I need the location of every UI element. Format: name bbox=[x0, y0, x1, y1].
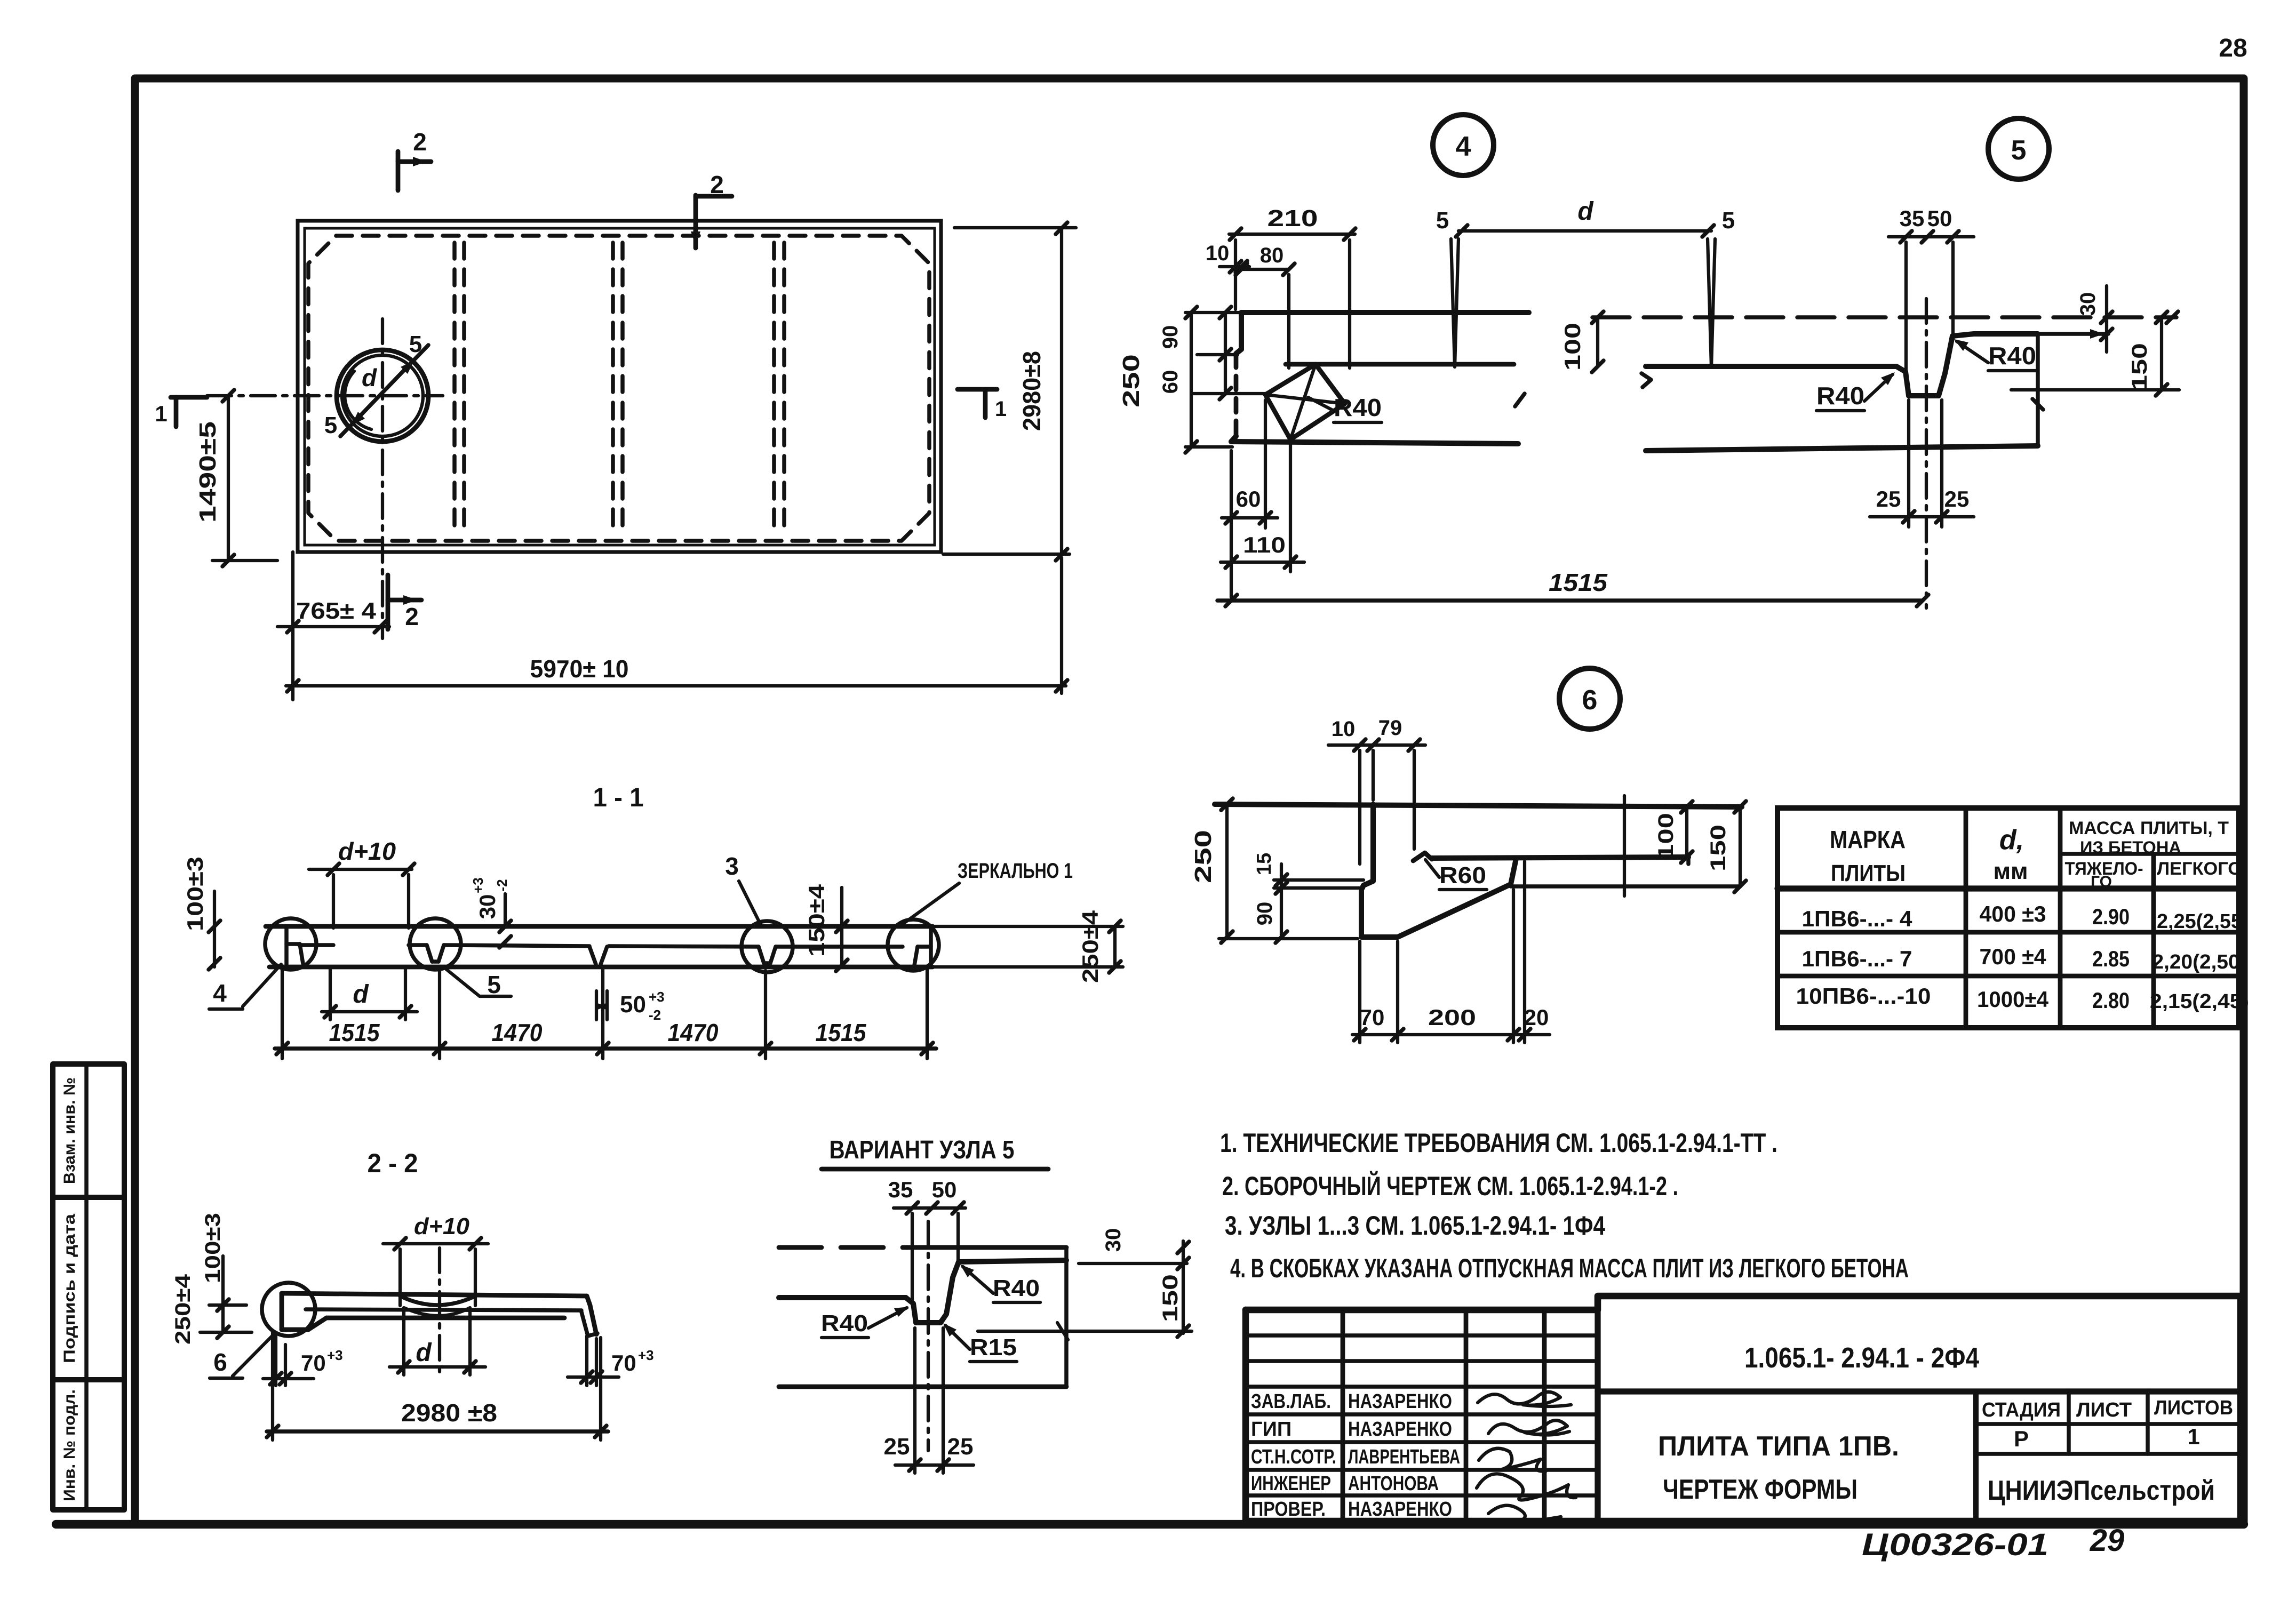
svg-text:+3: +3 bbox=[327, 1347, 343, 1363]
svg-text:20: 20 bbox=[1524, 1005, 1549, 1030]
svg-text:1470: 1470 bbox=[492, 1019, 543, 1046]
svg-text:+3: +3 bbox=[638, 1347, 654, 1363]
dimension 100±3 section 1-1 bbox=[182, 857, 220, 970]
dimension 250 detail 4 (left) bbox=[1118, 307, 1243, 453]
svg-text:R40: R40 bbox=[993, 1275, 1040, 1301]
plan hole diameter line d bbox=[340, 345, 428, 436]
title block row labels bbox=[1251, 1390, 1336, 1521]
svg-text:2: 2 bbox=[405, 603, 419, 630]
plan dashed inner outline with chamfered corners bbox=[308, 236, 929, 541]
dimension 80 detail 4 bbox=[1235, 244, 1295, 368]
plan dashed rib lines pair 3 bbox=[774, 243, 784, 534]
svg-text:2,15(2,45): 2,15(2,45) bbox=[2150, 990, 2249, 1013]
svg-text:5: 5 bbox=[1436, 207, 1449, 234]
svg-text:d: d bbox=[362, 364, 377, 391]
svg-text:90: 90 bbox=[1159, 325, 1182, 349]
svg-text:1515: 1515 bbox=[816, 1019, 867, 1046]
label R40 detail 4 bbox=[1308, 394, 1382, 422]
dimension 10 79 detail 6 top bbox=[1328, 716, 1425, 864]
svg-text:R60: R60 bbox=[1439, 862, 1486, 889]
svg-text:d,: d, bbox=[1999, 825, 2024, 855]
section mark 2 bottom bbox=[388, 575, 421, 629]
svg-text:15: 15 bbox=[1253, 853, 1275, 875]
dimension 50+3-2 section 1-1 bbox=[596, 989, 665, 1023]
label R40 variant right bbox=[960, 1265, 1040, 1302]
dimension 150±4 section 1-1 bbox=[804, 884, 848, 971]
label 4 with leader bbox=[209, 964, 281, 1009]
svg-text:250: 250 bbox=[1190, 830, 1216, 883]
svg-text:60: 60 bbox=[1236, 486, 1261, 511]
dimension 30 detail 5 bbox=[1974, 286, 2112, 352]
svg-text:R40: R40 bbox=[1816, 382, 1864, 410]
svg-text:1470: 1470 bbox=[668, 1019, 719, 1046]
svg-text:2.80: 2.80 bbox=[2092, 988, 2130, 1013]
dimension 1515 (details 4-5 bottom) bbox=[1217, 569, 1928, 606]
svg-text:28: 28 bbox=[2219, 34, 2247, 62]
detail 5 top reference dash line bbox=[1592, 311, 2178, 323]
svg-text:70: 70 bbox=[611, 1350, 636, 1375]
plan dashed rib lines pair 2 bbox=[613, 243, 623, 534]
svg-text:-2: -2 bbox=[649, 1007, 661, 1023]
section 2-2 hole axis bbox=[438, 1248, 441, 1379]
svg-text:d: d bbox=[1577, 197, 1594, 226]
label d in hole bbox=[362, 364, 377, 391]
title block organization bbox=[1988, 1475, 2215, 1506]
dimension 70+3 section 2-2 left bbox=[263, 1333, 343, 1386]
svg-text:НАЗАРЕНКО: НАЗАРЕНКО bbox=[1348, 1390, 1452, 1413]
dimension 2980±8 (plan right) bbox=[943, 222, 1076, 561]
svg-text:1: 1 bbox=[155, 401, 167, 426]
svg-text:R40: R40 bbox=[821, 1310, 868, 1337]
svg-text:30: 30 bbox=[475, 894, 500, 919]
dimension 250±4 section 1-1 bbox=[932, 910, 1123, 983]
table row 1 bbox=[1802, 901, 2243, 933]
svg-text:МАРКА: МАРКА bbox=[1830, 826, 1906, 853]
svg-text:110: 110 bbox=[1243, 532, 1286, 557]
svg-text:200: 200 bbox=[1428, 1005, 1476, 1030]
svg-text:1000±4: 1000±4 bbox=[1977, 987, 2049, 1012]
title block left grid bbox=[1246, 1310, 1598, 1521]
dimension 100±3 section 2-2 bbox=[200, 1213, 252, 1338]
detail 5 joint axis centerline bbox=[1925, 299, 1928, 608]
svg-text:5: 5 bbox=[324, 412, 337, 438]
svg-text:2. СБОРОЧНЫЙ ЧЕРТЕЖ СМ. 1.065.: 2. СБОРОЧНЫЙ ЧЕРТЕЖ СМ. 1.065.1-2.94.1-2… bbox=[1222, 1171, 1678, 1201]
svg-text:765± 4: 765± 4 bbox=[296, 598, 377, 624]
svg-text:4: 4 bbox=[1456, 131, 1471, 162]
svg-text:ПЛИТЫ: ПЛИТЫ bbox=[1831, 860, 1906, 886]
svg-text:1ПВ6-...- 4: 1ПВ6-...- 4 bbox=[1802, 906, 1913, 931]
svg-text:5: 5 bbox=[1722, 207, 1735, 234]
dimension 15 detail 6 bbox=[1253, 853, 1364, 894]
svg-text:100±3: 100±3 bbox=[201, 1213, 225, 1283]
dimension 100 detail 6 right bbox=[1654, 801, 1693, 863]
svg-text:ЛИСТОВ: ЛИСТОВ bbox=[2154, 1397, 2233, 1419]
svg-text:3. УЗЛЫ 1...3 СМ. 1.065.1-2.9: 3. УЗЛЫ 1...3 СМ. 1.065.1-2.94.1- 1Ф4 bbox=[1225, 1211, 1605, 1241]
svg-text:Ц00326-01: Ц00326-01 bbox=[1862, 1527, 2048, 1562]
svg-text:2,25(2,55: 2,25(2,55 bbox=[2157, 910, 2242, 933]
svg-text:2980±8: 2980±8 bbox=[1018, 351, 1046, 431]
svg-text:5970± 10: 5970± 10 bbox=[530, 655, 629, 683]
svg-text:1490±5: 1490±5 bbox=[195, 421, 221, 523]
svg-text:5: 5 bbox=[487, 971, 501, 998]
svg-text:50: 50 bbox=[932, 1177, 957, 1202]
svg-text:d+10: d+10 bbox=[414, 1213, 470, 1239]
svg-text:ИЗ БЕТОНА: ИЗ БЕТОНА bbox=[2080, 838, 2181, 857]
svg-text:+3: +3 bbox=[649, 989, 665, 1005]
svg-text:мм: мм bbox=[1993, 858, 2028, 884]
svg-text:R15: R15 bbox=[970, 1334, 1017, 1361]
dimension 250 detail 6 left bbox=[1190, 798, 1358, 943]
section mark 2 top-middle bbox=[691, 195, 732, 248]
dimension 35 50 variant bbox=[888, 1177, 966, 1301]
dimension d section 2-2 bbox=[389, 1312, 485, 1375]
svg-text:50: 50 bbox=[620, 991, 646, 1018]
svg-text:79: 79 bbox=[1378, 716, 1402, 740]
note 4 mass note bbox=[1230, 1253, 1909, 1283]
svg-text:d: d bbox=[416, 1339, 432, 1367]
title block document code bbox=[1744, 1342, 1979, 1374]
title block outer border bbox=[1246, 1296, 2241, 1521]
label 1 left bbox=[155, 401, 167, 426]
section 1-1 slab strip bbox=[266, 926, 932, 967]
dimension 150 detail 6 right bbox=[1707, 801, 1746, 892]
plan hole circle (double rim) bbox=[337, 350, 428, 442]
svg-text:4: 4 bbox=[213, 979, 227, 1007]
dimension 60 detail 4 bbox=[1159, 355, 1265, 399]
dimension d+10 section 2-2 bbox=[383, 1213, 488, 1306]
left margin stamp table bbox=[53, 1064, 124, 1510]
svg-text:1 - 1: 1 - 1 bbox=[593, 782, 644, 812]
svg-text:СТАДИЯ: СТАДИЯ bbox=[1982, 1399, 2061, 1421]
svg-text:ГО: ГО bbox=[2091, 873, 2112, 891]
svg-text:2,20(2,50): 2,20(2,50) bbox=[2153, 951, 2247, 973]
dimension 10 detail 4 bbox=[1206, 242, 1249, 273]
detail 6 break line bbox=[1623, 796, 1626, 896]
section 1-1 right end edge (mirror) bbox=[914, 926, 931, 967]
svg-text:35: 35 bbox=[1900, 206, 1925, 231]
variant node 5 outline bbox=[779, 1247, 1066, 1387]
detail 5 bubble bbox=[1988, 118, 2049, 179]
svg-text:250±4: 250±4 bbox=[1078, 910, 1103, 983]
svg-text:25: 25 bbox=[1876, 486, 1901, 511]
note 3 nodes bbox=[1225, 1211, 1605, 1241]
svg-text:МАССА ПЛИТЫ, Т: МАССА ПЛИТЫ, Т bbox=[2069, 818, 2229, 838]
svg-text:ГИП: ГИП bbox=[1251, 1418, 1292, 1441]
svg-text:R40: R40 bbox=[1334, 394, 1382, 421]
joint gap 5 leader right bbox=[1708, 207, 1735, 367]
svg-text:90: 90 bbox=[1253, 902, 1277, 926]
plan view outer rectangle (double line) bbox=[298, 221, 941, 552]
dimension 25 25 variant bbox=[884, 1328, 974, 1473]
title block middle divider bbox=[1598, 1388, 2241, 1394]
dimension 90 detail 6 bbox=[1253, 888, 1287, 943]
svg-text:СТ.Н.СОТР.: СТ.Н.СОТР. bbox=[1251, 1446, 1336, 1468]
svg-text:Взам. инв. №: Взам. инв. № bbox=[61, 1077, 78, 1184]
svg-text:ВАРИАНТ УЗЛА 5: ВАРИАНТ УЗЛА 5 bbox=[830, 1136, 1015, 1164]
svg-text:5: 5 bbox=[2011, 135, 2027, 166]
table header Марка плиты bbox=[1830, 826, 1906, 886]
mass table grid bbox=[1777, 808, 2239, 1028]
detail 5 section outline bbox=[1641, 334, 2043, 451]
note 2 assembly drawing bbox=[1222, 1171, 1678, 1201]
svg-text:150: 150 bbox=[1159, 1274, 1182, 1322]
svg-text:150: 150 bbox=[1707, 825, 1730, 871]
svg-text:10ПВ6-...-10: 10ПВ6-...-10 bbox=[1796, 983, 1931, 1009]
detail circle node 6 on section 2-2 bbox=[262, 1283, 315, 1336]
joint gap 5 leader left bbox=[1436, 207, 1458, 367]
svg-text:10: 10 bbox=[1206, 242, 1230, 265]
svg-text:ПРОВЕР.: ПРОВЕР. bbox=[1251, 1498, 1326, 1521]
dimension d section 1-1 bbox=[322, 969, 417, 1020]
dimension 1490±5 (plan left) bbox=[195, 390, 277, 566]
plan hole vertical centerline bbox=[381, 319, 384, 638]
svg-text:2.90: 2.90 bbox=[2092, 904, 2130, 929]
svg-text:ИНЖЕНЕР: ИНЖЕНЕР bbox=[1251, 1473, 1331, 1495]
section 2-2 hole arcs bbox=[400, 1296, 475, 1316]
svg-text:6: 6 bbox=[1582, 685, 1598, 716]
svg-text:4. В СКОБКАХ УКАЗАНА ОТПУСКНА: 4. В СКОБКАХ УКАЗАНА ОТПУСКНАЯ МАССА ПЛИ… bbox=[1230, 1253, 1909, 1283]
plan hole horizontal centerline bbox=[207, 394, 443, 397]
svg-text:1515: 1515 bbox=[1549, 569, 1608, 596]
label 3 with leader bbox=[725, 852, 760, 924]
svg-text:80: 80 bbox=[1260, 244, 1284, 267]
dimension 110 detail 4 bottom bbox=[1221, 443, 1304, 572]
label 5 at diameter top end bbox=[409, 331, 422, 357]
svg-text:30: 30 bbox=[1102, 1228, 1125, 1252]
dimension 250±4 section 2-2 bbox=[171, 1274, 195, 1345]
table header Масса плиты bbox=[2069, 818, 2229, 857]
detail 4 section outline bbox=[1231, 313, 1529, 444]
svg-text:29: 29 bbox=[2090, 1523, 2125, 1558]
section 1-1 rib notch in circle 2 bbox=[427, 945, 444, 962]
label R40 detail 5 lower bbox=[1816, 372, 1895, 411]
section 1-1 rib notch middle bbox=[589, 947, 607, 964]
svg-text:1: 1 bbox=[2187, 1424, 2199, 1449]
svg-text:Инв. № подл.: Инв. № подл. bbox=[61, 1389, 78, 1501]
signatures scribbles bbox=[1477, 1392, 1576, 1526]
title block names bbox=[1348, 1390, 1460, 1521]
svg-text:1515: 1515 bbox=[329, 1019, 380, 1046]
table header легкого bbox=[2157, 859, 2242, 879]
svg-text:ЦНИИЭПсельстрой: ЦНИИЭПсельстрой bbox=[1988, 1475, 2215, 1506]
table row 3 bbox=[1796, 983, 2250, 1013]
table row 2 bbox=[1802, 944, 2247, 973]
dimension 70 200 20 detail 6 bottom bbox=[1352, 861, 1550, 1043]
label 2 bottom bbox=[405, 603, 419, 630]
section 1-1 rib notch in circle 3 bbox=[759, 947, 776, 963]
svg-text:ЛИСТ: ЛИСТ bbox=[2076, 1399, 2132, 1421]
section mark 1 left bbox=[171, 397, 207, 427]
svg-text:ЧЕРТЕЖ ФОРМЫ: ЧЕРТЕЖ ФОРМЫ bbox=[1663, 1474, 1857, 1505]
label R40 detail 5 upper bbox=[1954, 339, 2036, 371]
svg-text:АНТОНОВА: АНТОНОВА bbox=[1348, 1473, 1439, 1495]
detail circle on node 4 bbox=[265, 918, 316, 970]
svg-text:R40: R40 bbox=[1988, 342, 2036, 370]
svg-text:2: 2 bbox=[710, 171, 724, 198]
dimension 2980±8 section 2-2 bbox=[267, 1332, 608, 1440]
svg-text:150±4: 150±4 bbox=[804, 884, 829, 957]
dimension 70+3 section 2-2 right bbox=[568, 1336, 654, 1386]
svg-text:2980 ±8: 2980 ±8 bbox=[401, 1399, 497, 1427]
variant node 5 title bbox=[822, 1136, 1048, 1169]
dimension 35 50 detail 5 bbox=[1888, 206, 1974, 371]
svg-text:ЛЕГКОГО: ЛЕГКОГО bbox=[2157, 859, 2242, 879]
title block stage headers bbox=[1982, 1397, 2233, 1421]
svg-text:Подпись и дата: Подпись и дата bbox=[61, 1214, 78, 1363]
svg-text:d: d bbox=[353, 980, 369, 1009]
table header тяжелого bbox=[2065, 859, 2143, 891]
section 2-2 slab strip bbox=[282, 1293, 597, 1336]
svg-text:25: 25 bbox=[1944, 486, 1970, 511]
label Инв. № подл. bbox=[61, 1389, 78, 1501]
dimension 30+3-2 section 1-1 bbox=[470, 877, 511, 948]
handwritten inventory number bbox=[1862, 1523, 2124, 1562]
svg-text:1ПВ6-...- 7: 1ПВ6-...- 7 bbox=[1802, 946, 1912, 971]
svg-text:Р: Р bbox=[2014, 1426, 2029, 1451]
detail 6 section outline bbox=[1215, 804, 1742, 937]
svg-text:100±3: 100±3 bbox=[182, 857, 208, 931]
dimension 30 variant bbox=[1079, 1228, 1189, 1333]
dimension 150 variant bbox=[978, 1274, 1192, 1340]
svg-text:150: 150 bbox=[2128, 343, 2151, 391]
dimension 60 detail 4 bottom bbox=[1222, 400, 1278, 597]
variant node 5 axis bbox=[927, 1221, 930, 1451]
detail 6 bubble bbox=[1559, 668, 1620, 729]
svg-text:ЗАВ.ЛАБ.: ЗАВ.ЛАБ. bbox=[1251, 1390, 1331, 1413]
dimension 210 detail 4 bbox=[1229, 205, 1356, 368]
svg-text:30: 30 bbox=[2076, 292, 2100, 316]
label 5 at diameter bottom end bbox=[324, 412, 337, 438]
svg-text:6: 6 bbox=[213, 1348, 227, 1376]
label Взам. инв. № bbox=[61, 1077, 78, 1184]
svg-text:210: 210 bbox=[1267, 205, 1318, 231]
title block stage values bbox=[2014, 1424, 2200, 1451]
label 5 with leader bbox=[443, 966, 511, 998]
svg-text:50: 50 bbox=[1927, 206, 1952, 231]
svg-text:ПЛИТА ТИПА 1ПВ.: ПЛИТА ТИПА 1ПВ. bbox=[1658, 1431, 1899, 1462]
svg-text:250±4: 250±4 bbox=[171, 1274, 195, 1345]
section mark 1 right bbox=[958, 389, 997, 418]
dimension d+10 section 1-1 bbox=[309, 837, 414, 928]
svg-text:НАЗАРЕНКО: НАЗАРЕНКО bbox=[1348, 1418, 1452, 1441]
svg-text:100: 100 bbox=[1560, 323, 1585, 371]
label R40 variant left bbox=[821, 1307, 909, 1338]
label 1 right bbox=[995, 397, 1007, 421]
dimension chain 1515 1470 1470 1515 bbox=[275, 966, 936, 1059]
label 6 with leader bbox=[210, 1334, 274, 1378]
label R60 detail 6 bbox=[1425, 860, 1487, 890]
dimension 100 detail 5 left bbox=[1560, 317, 1604, 372]
svg-text:2.85: 2.85 bbox=[2092, 946, 2130, 971]
svg-text:35: 35 bbox=[888, 1177, 913, 1202]
svg-text:100: 100 bbox=[1654, 813, 1678, 860]
svg-text:1. ТЕХНИЧЕСКИЕ ТРЕБОВАНИЯ СМ.: 1. ТЕХНИЧЕСКИЕ ТРЕБОВАНИЯ СМ. 1.065.1-2.… bbox=[1220, 1128, 1777, 1158]
svg-text:70: 70 bbox=[301, 1350, 326, 1375]
label зеркально 1 bbox=[903, 859, 1073, 924]
table header d mm bbox=[1993, 825, 2028, 884]
svg-text:60: 60 bbox=[1159, 370, 1182, 394]
svg-text:2: 2 bbox=[413, 128, 427, 156]
label 2 top-left bbox=[413, 128, 427, 156]
svg-text:25: 25 bbox=[947, 1434, 974, 1460]
detail circle on node 5 bbox=[410, 918, 461, 970]
title block drawing name bbox=[1658, 1431, 1899, 1505]
dimension 765±4 (plan bottom-left) bbox=[277, 552, 389, 700]
svg-text:d+10: d+10 bbox=[338, 837, 396, 865]
svg-text:700 ±4: 700 ±4 bbox=[1980, 944, 2047, 969]
svg-text:-2: -2 bbox=[494, 879, 510, 891]
svg-text:400 ±3: 400 ±3 bbox=[1980, 901, 2046, 926]
page number 28 bbox=[2219, 34, 2247, 62]
detail 4 pocket recess with R40 bbox=[1265, 364, 1345, 439]
label Подпись и дата bbox=[61, 1214, 78, 1363]
svg-text:1: 1 bbox=[995, 397, 1007, 421]
svg-text:5: 5 bbox=[409, 331, 422, 357]
section 1-1 title bbox=[593, 782, 644, 812]
label 2 top-middle bbox=[710, 171, 724, 198]
detail 4 bubble bbox=[1433, 115, 1494, 175]
detail circle mirrored node 1 bbox=[888, 919, 939, 971]
svg-text:70: 70 bbox=[1360, 1005, 1385, 1030]
svg-text:ЛАВРЕНТЬЕВА: ЛАВРЕНТЬЕВА bbox=[1348, 1446, 1460, 1468]
svg-text:25: 25 bbox=[884, 1434, 910, 1460]
svg-text:1.065.1- 2.94.1 - 2Ф4: 1.065.1- 2.94.1 - 2Ф4 bbox=[1744, 1342, 1979, 1374]
plan dashed rib lines pair 1 bbox=[455, 243, 464, 534]
dimension d between details bbox=[1456, 197, 1714, 237]
svg-text:ЗЕРКАЛЬНО 1: ЗЕРКАЛЬНО 1 bbox=[958, 859, 1073, 883]
section mark 2 top-left bbox=[398, 151, 431, 190]
detail circle on node 3 bbox=[742, 921, 793, 972]
svg-text:2 - 2: 2 - 2 bbox=[368, 1148, 418, 1178]
svg-text:10: 10 bbox=[1332, 717, 1356, 741]
note 1 technical requirements bbox=[1220, 1128, 1777, 1158]
dimension 90 detail 4 bbox=[1159, 307, 1238, 361]
svg-text:НАЗАРЕНКО: НАЗАРЕНКО bbox=[1348, 1498, 1452, 1521]
svg-text:3: 3 bbox=[725, 852, 739, 880]
dimension 150 detail 5 bbox=[2011, 311, 2179, 396]
dimension 5970±10 (plan bottom) bbox=[286, 558, 1067, 693]
label R15 variant bbox=[943, 1323, 1017, 1362]
title block right grid bbox=[1976, 1391, 2241, 1521]
svg-text:250: 250 bbox=[1118, 354, 1144, 407]
svg-text:+3: +3 bbox=[470, 877, 486, 893]
section 1-1 left end edge bbox=[286, 926, 303, 964]
section 2-2 title bbox=[368, 1148, 418, 1178]
dimension 25 25 detail 5 bbox=[1870, 400, 1974, 527]
